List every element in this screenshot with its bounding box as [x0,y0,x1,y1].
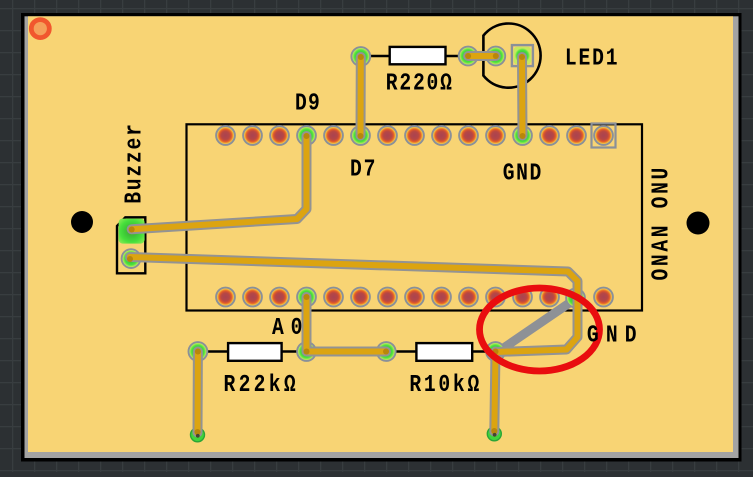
svg-text:D9: D9 [295,90,320,117]
svg-text:R10kΩ: R10kΩ [409,371,479,398]
svg-text:GND: GND [503,160,542,187]
svg-text:R22kΩ: R22kΩ [224,371,296,398]
svg-text:GND: GND [587,322,637,349]
svg-text:R220Ω: R220Ω [386,70,452,97]
